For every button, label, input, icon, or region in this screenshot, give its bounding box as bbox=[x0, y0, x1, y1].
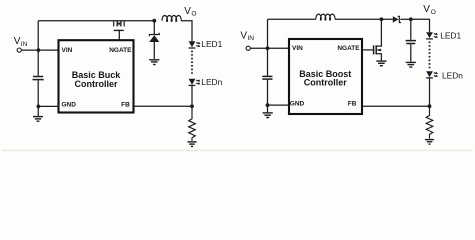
label U2 title bbox=[299, 69, 351, 88]
svg-text:Controller: Controller bbox=[74, 79, 117, 89]
svg-text:V: V bbox=[184, 6, 191, 17]
node VIN label (boost) bbox=[240, 30, 254, 42]
svg-text:GND: GND bbox=[62, 102, 77, 109]
node VO label (buck) bbox=[184, 6, 196, 18]
wire LEDn to FB node bbox=[191, 86, 193, 106]
node VO junction dot (boost) bbox=[409, 17, 413, 21]
svg-text:VIN: VIN bbox=[62, 47, 73, 54]
svg-text:LEDn: LEDn bbox=[442, 70, 463, 80]
node VIN terminal (boost) bbox=[246, 46, 250, 50]
svg-text:NGATE: NGATE bbox=[337, 45, 360, 52]
op-amp U1 Basic Buck Controller box bbox=[59, 40, 134, 112]
node A junction dot (buck input) bbox=[37, 48, 41, 52]
faint page rule bbox=[2, 150, 473, 152]
wire LEDn to FB node (boost) bbox=[429, 79, 431, 107]
node GND junction dot (buck) bbox=[37, 105, 41, 109]
wire top rail to switch node (boost) bbox=[335, 18, 393, 20]
wire input riser to top rail (boost) bbox=[267, 19, 269, 48]
node VO label (boost) bbox=[423, 4, 436, 16]
LEDn (boost) bbox=[426, 71, 438, 78]
wire GND node to U1 GND pin bbox=[38, 105, 57, 107]
svg-text:VIN: VIN bbox=[292, 45, 303, 52]
capacitor C1 input (buck) bbox=[33, 50, 44, 106]
svg-text:V: V bbox=[240, 30, 247, 41]
wire D2 cathode to VO node bbox=[400, 18, 411, 20]
wire L1 to VO corner down to LED1 bbox=[181, 21, 192, 42]
ground (boost input) bbox=[263, 113, 273, 118]
svg-text:Controller: Controller bbox=[304, 78, 347, 88]
diode D2 schottky (boost rectifier) bbox=[393, 16, 401, 22]
transistor Q1 PMOS (buck high-side switch) bbox=[114, 21, 125, 31]
node A2 junction dot (boost input) bbox=[266, 46, 270, 50]
node FB junction dot (boost) bbox=[428, 104, 432, 108]
label U1 title bbox=[72, 70, 122, 89]
wire top rail (buck) bbox=[38, 20, 154, 22]
ground (boost Q2 source) bbox=[376, 61, 386, 66]
svg-text:O: O bbox=[431, 9, 436, 16]
svg-text:V: V bbox=[14, 36, 21, 47]
wire dotted LED chain (boost) bbox=[429, 42, 431, 70]
wire Q1 gate to U1 NGATE pin bbox=[118, 30, 120, 39]
wire VIN terminal to U1 VIN pin bbox=[22, 49, 58, 51]
ground (boost C3) bbox=[406, 62, 416, 67]
wire GND node to ground (boost) bbox=[267, 105, 269, 112]
capacitor C2 input (boost) bbox=[262, 48, 272, 105]
node VIN label (buck) bbox=[14, 36, 28, 48]
LEDn (buck) bbox=[189, 79, 201, 86]
LED1 (buck) bbox=[189, 41, 201, 48]
wire U1 FB pin to FB node bbox=[135, 105, 193, 107]
wire U2 FB pin to FB node bbox=[363, 105, 430, 107]
op-amp U2 Basic Boost Controller box bbox=[289, 39, 362, 114]
node FB junction dot (buck) bbox=[190, 104, 194, 108]
svg-text:V: V bbox=[423, 4, 430, 15]
resistor R2 sense (boost) bbox=[426, 106, 433, 138]
svg-text:IN: IN bbox=[21, 41, 28, 48]
svg-text:LEDn: LEDn bbox=[201, 77, 222, 87]
svg-text:O: O bbox=[191, 11, 196, 18]
inductor L2 (boost) bbox=[316, 14, 335, 20]
svg-text:LED1: LED1 bbox=[201, 39, 222, 49]
wire SW node to diode D1 bbox=[153, 21, 155, 34]
node GND junction dot (boost) bbox=[266, 103, 270, 107]
ground (boost R2) bbox=[425, 140, 434, 145]
wire VIN terminal to U2 VIN pin bbox=[251, 47, 289, 49]
wire top rail left segment (boost) bbox=[268, 18, 316, 20]
resistor R1 sense (buck) bbox=[189, 106, 196, 141]
node SW junction dot (boost) bbox=[380, 17, 384, 21]
wire VO node to corner down to LED1 (boost) bbox=[411, 19, 430, 32]
transistor Q2 NMOS (boost switch) bbox=[374, 19, 382, 60]
wire input riser to top rail (buck) bbox=[37, 21, 39, 50]
svg-text:FB: FB bbox=[121, 102, 130, 109]
ground (buck diode) bbox=[149, 60, 159, 65]
svg-text:GND: GND bbox=[290, 101, 305, 108]
svg-text:NGATE: NGATE bbox=[109, 47, 132, 54]
ground (buck R1) bbox=[187, 142, 196, 147]
svg-text:IN: IN bbox=[247, 35, 254, 42]
ground (buck input) bbox=[33, 117, 43, 122]
inductor L1 (buck) bbox=[162, 16, 181, 22]
node VIN terminal (buck) bbox=[17, 48, 21, 52]
node SW junction dot (buck) bbox=[152, 19, 156, 23]
svg-text:LED1: LED1 bbox=[440, 30, 461, 40]
wire GND node to U2 GND pin bbox=[268, 104, 289, 106]
wire dotted LED chain (buck) bbox=[191, 51, 193, 75]
wire D1 anode to ground bbox=[153, 42, 155, 59]
wire GND node to ground bbox=[37, 106, 39, 116]
wire U2 NGATE pin to Q2 gate bbox=[363, 49, 374, 51]
diode D1 schottky (buck freewheel) bbox=[149, 33, 159, 42]
capacitor C3 output (boost) bbox=[406, 19, 416, 61]
LED1 (boost) bbox=[426, 32, 438, 39]
svg-text:FB: FB bbox=[348, 101, 357, 108]
